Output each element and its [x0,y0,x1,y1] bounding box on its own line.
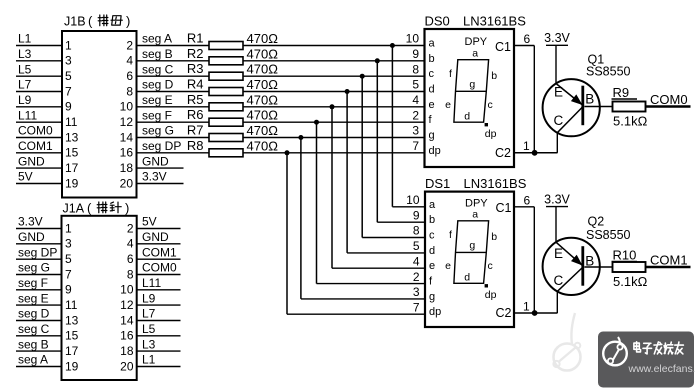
svg-text:g: g [429,130,435,142]
svg-text:LN3161BS: LN3161BS [464,176,527,191]
svg-text:3.3V: 3.3V [544,31,570,45]
svg-text:COM1: COM1 [650,253,688,268]
svg-text:8: 8 [412,62,419,76]
svg-text:3: 3 [65,54,72,68]
svg-text:L1: L1 [142,353,156,367]
svg-text:L9: L9 [142,291,156,305]
svg-text:a: a [472,48,478,60]
svg-text:6: 6 [524,193,531,207]
svg-text:c: c [488,99,493,111]
svg-text:C: C [554,273,564,288]
svg-text:3: 3 [412,124,419,138]
svg-text:dp: dp [429,306,441,318]
svg-text:4: 4 [413,254,420,268]
svg-text:20: 20 [120,176,134,190]
svg-text:d: d [464,272,470,284]
svg-text:18: 18 [120,344,134,358]
svg-text:470Ω: 470Ω [247,31,279,46]
svg-text:d: d [429,84,435,96]
svg-text:B: B [585,92,594,107]
svg-text:8: 8 [126,84,133,98]
svg-text:C2: C2 [496,306,512,320]
svg-text:seg DP: seg DP [142,139,181,153]
svg-text:4: 4 [412,93,419,107]
svg-text:2: 2 [127,221,134,235]
svg-text:5: 5 [412,78,419,92]
svg-text:): ) [125,201,129,216]
svg-text:5: 5 [65,252,72,266]
svg-text:1: 1 [523,139,530,153]
svg-text:seg F: seg F [18,276,48,290]
svg-text:11: 11 [65,298,78,312]
svg-text:seg C: seg C [142,62,174,76]
svg-text:10: 10 [406,32,420,46]
svg-text:g: g [469,240,475,252]
svg-text:7: 7 [65,267,72,281]
svg-text:e: e [429,99,435,111]
svg-text:4: 4 [127,237,134,251]
svg-text:(: ( [88,14,93,29]
svg-text:3.3V: 3.3V [142,170,167,184]
svg-text:13: 13 [65,130,79,144]
svg-text:f: f [449,229,452,241]
svg-text:16: 16 [120,329,134,343]
svg-text:J1A: J1A [63,202,85,216]
svg-text:5.1kΩ: 5.1kΩ [613,114,648,129]
svg-text:www.elecfans.com: www.elecfans.com [628,363,695,375]
svg-text:): ) [126,14,130,29]
svg-text:(: ( [87,201,92,216]
svg-text:10: 10 [120,283,134,297]
svg-text:L5: L5 [18,62,32,76]
svg-text:17: 17 [65,161,79,175]
svg-text:LN3161BS: LN3161BS [463,14,526,29]
svg-text:e: e [445,260,451,272]
svg-text:DPY: DPY [465,197,488,209]
svg-text:dp: dp [429,145,441,157]
svg-text:C1: C1 [496,201,512,215]
svg-text:e: e [429,260,435,272]
svg-text:GND: GND [18,154,45,168]
svg-text:3.3V: 3.3V [544,192,570,206]
svg-text:8: 8 [413,224,420,238]
svg-text:470Ω: 470Ω [247,138,279,153]
svg-text:5: 5 [413,239,420,253]
svg-text:3.3V: 3.3V [18,215,43,229]
svg-text:g: g [469,79,475,91]
svg-text:seg C: seg C [18,322,50,336]
svg-text:seg A: seg A [142,32,172,46]
svg-text:8: 8 [127,267,134,281]
svg-text:1: 1 [65,38,72,52]
svg-text:seg D: seg D [18,307,50,321]
svg-text:2: 2 [412,108,419,122]
svg-text:9: 9 [412,47,419,61]
svg-text:16: 16 [120,146,134,160]
svg-text:E: E [554,246,563,261]
svg-text:5.1kΩ: 5.1kΩ [613,274,648,289]
svg-text:SS8550: SS8550 [586,65,631,79]
svg-text:9: 9 [65,100,72,114]
svg-text:R6: R6 [187,107,204,122]
svg-text:C: C [554,113,564,128]
svg-text:COM1: COM1 [18,139,53,153]
svg-text:E: E [554,84,563,99]
svg-text:seg B: seg B [18,337,49,351]
svg-text:R10: R10 [613,248,637,263]
svg-text:C1: C1 [495,40,511,54]
svg-text:L5: L5 [142,322,156,336]
svg-text:DS0: DS0 [425,14,450,29]
svg-text:dp: dp [485,289,497,301]
svg-text:10: 10 [120,100,134,114]
svg-text:a: a [429,199,436,211]
svg-text:L7: L7 [142,307,156,321]
svg-text:5V: 5V [142,215,157,229]
svg-text:R8: R8 [187,138,204,153]
svg-text:b: b [491,70,497,82]
svg-text:seg DP: seg DP [18,245,57,259]
svg-text:18: 18 [120,161,134,175]
svg-text:seg G: seg G [18,261,50,275]
svg-text:9: 9 [65,283,72,297]
svg-text:L9: L9 [18,93,32,107]
svg-text:R5: R5 [187,92,204,107]
svg-text:COM0: COM0 [650,92,688,107]
svg-text:seg D: seg D [142,78,174,92]
svg-text:13: 13 [65,313,79,327]
svg-text:b: b [429,53,435,65]
svg-text:SS8550: SS8550 [586,228,631,242]
svg-text:GND: GND [18,230,45,244]
svg-text:5: 5 [65,69,72,83]
svg-text:3: 3 [413,285,420,299]
svg-text:g: g [429,291,435,303]
svg-text:10: 10 [406,193,420,207]
svg-text:470Ω: 470Ω [247,92,279,107]
svg-text:7: 7 [413,300,420,314]
svg-text:d: d [429,245,435,257]
svg-text:4: 4 [126,54,133,68]
svg-text:COM0: COM0 [18,124,53,138]
svg-text:c: c [488,260,493,272]
svg-text:a: a [429,38,436,50]
svg-text:15: 15 [65,146,79,160]
svg-text:470Ω: 470Ω [247,46,279,61]
svg-text:L3: L3 [18,47,32,61]
svg-text:R3: R3 [187,61,204,76]
svg-text:d: d [464,111,470,123]
svg-text:seg E: seg E [18,291,49,305]
svg-text:Q2: Q2 [588,215,605,229]
svg-text:GND: GND [142,230,169,244]
svg-text:R1: R1 [187,31,204,46]
svg-text:470Ω: 470Ω [247,62,279,77]
svg-text:1: 1 [523,299,530,313]
svg-text:19: 19 [65,176,79,190]
svg-text:b: b [491,231,497,243]
svg-text:seg E: seg E [142,93,173,107]
svg-text:12: 12 [120,298,134,312]
svg-text:COM0: COM0 [142,261,177,275]
svg-text:DPY: DPY [465,36,488,48]
svg-text:R2: R2 [187,46,204,61]
svg-text:7: 7 [65,84,72,98]
svg-text:L11: L11 [18,108,37,122]
svg-text:J1B: J1B [64,15,86,29]
svg-text:2: 2 [413,270,420,284]
svg-text:dp: dp [485,128,497,140]
svg-text:seg B: seg B [142,47,173,61]
svg-text:C2: C2 [495,146,511,160]
svg-text:R9: R9 [613,85,630,100]
svg-text:c: c [429,230,435,242]
svg-text:seg G: seg G [142,124,174,138]
svg-text:12: 12 [120,115,134,129]
svg-text:f: f [449,68,452,80]
svg-text:COM1: COM1 [142,245,177,259]
svg-text:6: 6 [524,32,531,46]
svg-text:6: 6 [127,252,134,266]
svg-text:14: 14 [120,130,134,144]
svg-text:c: c [429,68,435,80]
svg-text:20: 20 [120,359,134,373]
svg-text:17: 17 [65,344,79,358]
svg-text:DS1: DS1 [425,176,450,191]
svg-text:b: b [429,214,435,226]
svg-text:L7: L7 [18,78,32,92]
svg-text:470Ω: 470Ω [247,77,279,92]
svg-text:470Ω: 470Ω [247,108,279,123]
svg-text:15: 15 [65,329,79,343]
svg-text:R7: R7 [187,123,204,138]
svg-text:7: 7 [412,139,419,153]
svg-text:seg F: seg F [142,108,172,122]
svg-text:14: 14 [120,313,134,327]
svg-text:5V: 5V [18,170,33,184]
svg-text:19: 19 [65,359,79,373]
svg-text:1: 1 [65,221,72,235]
svg-text:L11: L11 [142,276,161,290]
svg-text:470Ω: 470Ω [247,123,279,138]
svg-text:R4: R4 [187,77,204,92]
svg-text:9: 9 [413,208,420,222]
svg-text:11: 11 [65,115,78,129]
svg-text:e: e [445,99,451,111]
svg-text:L1: L1 [18,32,32,46]
svg-text:L3: L3 [142,337,156,351]
svg-text:GND: GND [142,154,169,168]
svg-text:a: a [472,209,478,221]
svg-text:3: 3 [65,237,72,251]
svg-text:6: 6 [126,69,133,83]
svg-text:2: 2 [126,38,133,52]
svg-text:seg A: seg A [18,353,48,367]
